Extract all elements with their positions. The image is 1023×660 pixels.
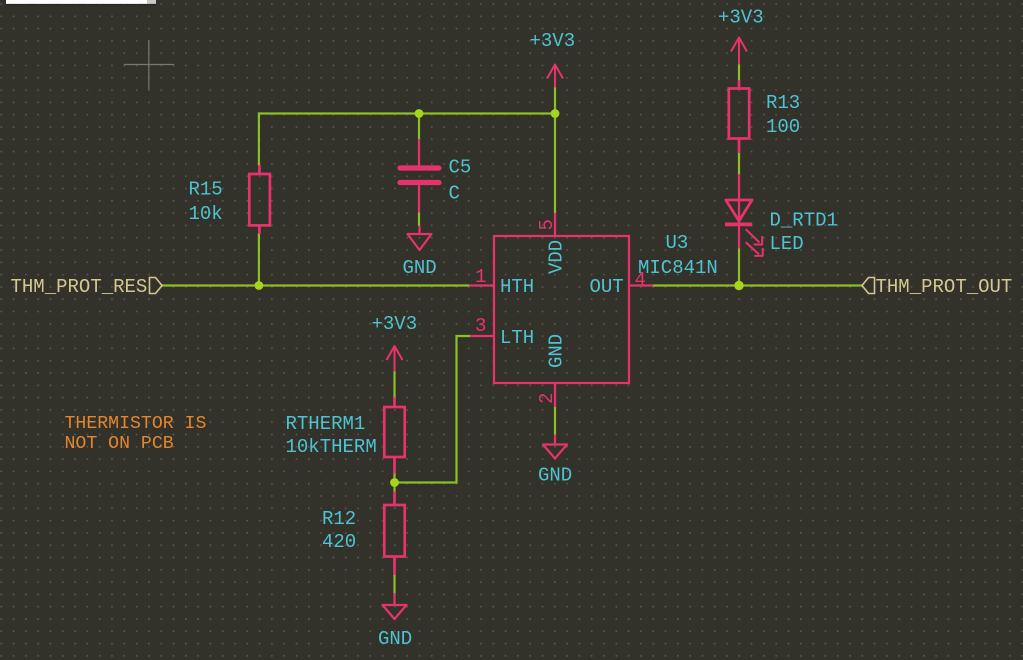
- net label THM_PROT_RES: [11, 276, 163, 298]
- resistor RTHERM1: [384, 398, 404, 474]
- svg-text:10kTHERM: 10kTHERM: [286, 436, 377, 458]
- junction node at thermistor divider: [390, 478, 399, 487]
- wire: junction to R12 top: [393, 483, 395, 493]
- label U3 MIC841N: [638, 232, 718, 279]
- svg-text:2: 2: [536, 393, 558, 404]
- net label THM_PROT_OUT: [862, 276, 1012, 298]
- svg-text:U3: U3: [666, 232, 689, 254]
- svg-text:C5: C5: [449, 157, 472, 179]
- power +3V3 above R13: [731, 38, 747, 65]
- svg-text:420: 420: [322, 531, 356, 553]
- ground below R12: [383, 593, 407, 619]
- wire: LED cathode to OUT net: [738, 248, 740, 286]
- svg-text:10k: 10k: [189, 203, 223, 225]
- label D_RTD1 LED: [770, 210, 838, 256]
- svg-text:GND: GND: [538, 465, 572, 487]
- svg-text:VDD: VDD: [546, 240, 568, 274]
- wire: LTH pin corner run: [395, 336, 470, 483]
- wire: R12 bottom to ground: [393, 574, 395, 595]
- wire: R15 top drop: [258, 112, 260, 166]
- svg-text:THM_PROT_RES: THM_PROT_RES: [11, 276, 148, 298]
- wire: R15 bottom to main net: [258, 233, 260, 286]
- svg-text:+3V3: +3V3: [530, 30, 576, 52]
- svg-text:OUT: OUT: [590, 276, 624, 298]
- svg-text:+3V3: +3V3: [718, 7, 764, 29]
- label R12 value: [322, 508, 356, 553]
- svg-text:R13: R13: [766, 92, 800, 114]
- label +3V3 (R13): [718, 7, 764, 29]
- svg-text:R12: R12: [322, 508, 356, 530]
- svg-text:THM_PROT_OUT: THM_PROT_OUT: [876, 276, 1013, 298]
- wire: R13 top to +3V3: [738, 64, 740, 81]
- note THERMISTOR IS NOT ON PCB: [65, 414, 207, 454]
- power +3V3 above RTHERM1: [387, 346, 403, 372]
- svg-text:HTH: HTH: [500, 276, 534, 298]
- wire: C5 top drop: [418, 114, 420, 140]
- wire: +3V3 to RTHERM1: [393, 371, 395, 398]
- svg-text:NOT ON PCB: NOT ON PCB: [65, 434, 174, 454]
- svg-text:D_RTD1: D_RTD1: [770, 210, 838, 232]
- resistor R13: [729, 80, 749, 153]
- svg-text:LED: LED: [770, 233, 804, 255]
- svg-text:3: 3: [475, 315, 486, 337]
- svg-text:GND: GND: [378, 628, 412, 650]
- wire: RTHERM1 bottom to junction: [393, 473, 395, 483]
- resistor R12: [384, 492, 404, 576]
- resistor R15: [249, 165, 270, 234]
- pin 4 OUT: [590, 269, 654, 298]
- pin 5 VDD: [536, 213, 568, 274]
- svg-text:RTHERM1: RTHERM1: [286, 413, 366, 435]
- label GND (C5): [403, 257, 437, 279]
- svg-text:+3V3: +3V3: [372, 313, 418, 335]
- LED D_RTD1: [725, 174, 763, 256]
- wire: OUT net to THM_PROT_OUT: [653, 284, 863, 286]
- wire: pin2 to ground: [554, 407, 556, 435]
- junction node at LED / OUT net: [734, 281, 743, 290]
- svg-text:C: C: [449, 183, 460, 205]
- wire: C5 bottom to ground: [418, 212, 420, 226]
- ground below U3 pin 2: [543, 435, 567, 459]
- pin 3 LTH: [470, 315, 534, 349]
- label C5 value: [449, 157, 472, 205]
- wire: R13 bottom to LED: [738, 152, 740, 175]
- label R15 value: [189, 179, 223, 226]
- white toolbar fragment top-left: [6, 0, 156, 5]
- label RTHERM1 value: [286, 413, 377, 458]
- power +3V3 top (VDD branch): [547, 65, 563, 88]
- op-amp comparator U3 body: [494, 236, 629, 383]
- label GND (R12): [378, 628, 412, 650]
- capacitor C5: [400, 139, 439, 213]
- label R13 value: [766, 92, 800, 138]
- svg-text:5: 5: [536, 219, 558, 230]
- cursor crosshair: [124, 40, 174, 89]
- svg-text:1: 1: [475, 266, 486, 288]
- label GND (U3): [538, 465, 572, 487]
- svg-text:100: 100: [766, 116, 800, 138]
- svg-text:GND: GND: [403, 257, 437, 279]
- svg-text:GND: GND: [546, 334, 568, 368]
- label +3V3 (VDD): [530, 30, 576, 52]
- junction node at VDD tap: [551, 109, 560, 118]
- svg-text:LTH: LTH: [500, 327, 534, 349]
- junction node at C5 tap: [415, 109, 424, 118]
- pin 2 GND: [536, 334, 568, 407]
- svg-text:THERMISTOR IS: THERMISTOR IS: [65, 414, 207, 434]
- junction node at R15 / main net: [255, 281, 264, 290]
- wire: +3V3 down to VDD pin: [554, 87, 556, 213]
- pin 1 HTH: [469, 266, 534, 298]
- wire: top bus from R15 to VDD branch: [259, 112, 555, 114]
- ground below C5: [408, 226, 432, 251]
- svg-text:MIC841N: MIC841N: [638, 257, 718, 279]
- wire: main horizontal THM_PROT_RES net: [162, 284, 469, 286]
- label +3V3 (RTHERM1): [372, 313, 418, 335]
- svg-text:R15: R15: [189, 179, 223, 201]
